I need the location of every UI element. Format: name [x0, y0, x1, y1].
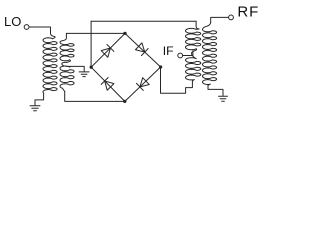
svg-text:IF: IF [163, 44, 174, 58]
svg-text:RF: RF [237, 3, 259, 20]
svg-text:LO: LO [4, 14, 21, 29]
